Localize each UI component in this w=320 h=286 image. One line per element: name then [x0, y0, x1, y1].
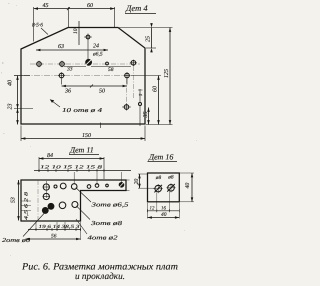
hole r3b slashed: [72, 202, 78, 208]
note leader: [41, 28, 48, 35]
extension top right y27.5: [119, 27, 173, 29]
hole crosshair: [84, 34, 92, 41]
dim56 arrows: [26, 238, 81, 241]
left small extensions: [21, 201, 31, 211]
label 58: [108, 67, 114, 73]
svg-text:и прокладки.: и прокладки.: [75, 272, 125, 282]
svg-text:125: 125: [164, 69, 170, 78]
extension y74 right: [131, 75, 161, 77]
scan speckles: [1, 3, 197, 256]
plate Det11 outline: [21, 180, 126, 221]
dim 60 line: [158, 76, 160, 125]
svg-text:Дет 11: Дет 11: [69, 146, 94, 155]
label 63: [58, 44, 64, 50]
arrow 36 left: [62, 85, 66, 88]
label 60 rotated: [153, 86, 159, 92]
svg-text:Рис. 6. Разметка монтажных пла: Рис. 6. Разметка монтажных плат: [21, 262, 178, 273]
leader 3otv8: [76, 206, 90, 220]
right col holes: vertical centerline: [132, 66, 134, 98]
svg-text:Дет 4: Дет 4: [125, 3, 148, 13]
bottom chain labels: [39, 224, 81, 230]
extension row2 b down: [126, 79, 128, 85]
hole16 b slash: [167, 184, 175, 192]
svg-text:33: 33: [66, 67, 73, 73]
dim40r arrows: [191, 173, 194, 202]
extension y104: [14, 108, 33, 110]
svg-text:45: 45: [43, 3, 49, 9]
dim40b arrows: [148, 216, 180, 219]
label 60: [87, 3, 93, 9]
centerline row1: [30, 63, 140, 65]
dim53 arrows: [17, 180, 20, 221]
label 50: [99, 89, 105, 95]
label 4otv2: [88, 235, 118, 242]
svg-text:63: 63: [58, 44, 64, 50]
label 84: [47, 153, 53, 159]
left arrows: [16, 76, 19, 125]
hole row1 right cross: [130, 60, 137, 66]
centerline row2: [14, 75, 130, 77]
svg-text:40: 40: [8, 80, 14, 86]
chain16 ticks: [148, 209, 180, 212]
svg-text:56: 56: [51, 234, 57, 240]
tab right tick: [127, 180, 130, 191]
dimension 45 top: [34, 8, 69, 10]
svg-text:12: 12: [150, 205, 155, 211]
svg-text:53: 53: [11, 197, 17, 203]
plate Det4 outline: [21, 28, 145, 125]
bottom chain 16 labels: [150, 205, 167, 211]
extension shoulder y48: [146, 47, 156, 49]
extension line left: [33, 7, 35, 42]
dim 40 bottom line: [148, 217, 180, 219]
dim 84 line: [39, 158, 104, 160]
labels d8 d8: [155, 175, 174, 182]
svg-text:35: 35: [143, 112, 149, 119]
dim 35 line: [148, 108, 150, 125]
hole tab a: [95, 184, 99, 188]
label 45: [43, 3, 49, 9]
hole row1 b cross: [59, 61, 66, 67]
svg-text:12 10 15 12 15 8: 12 10 15 12 15 8: [40, 165, 103, 171]
extension line right: [114, 7, 116, 27]
svg-text:40: 40: [185, 183, 191, 189]
extension bottom right y124: [146, 124, 173, 126]
label 10 otv d4: [62, 108, 102, 114]
label 125 rotated: [164, 69, 170, 78]
hole r2 cross: [43, 196, 50, 198]
svg-text:36: 36: [64, 89, 71, 95]
label Det16 underline: [148, 161, 178, 163]
svg-text:24: 24: [93, 44, 99, 50]
hole top (88,37): [86, 35, 90, 39]
dim84 arrows: [39, 157, 104, 160]
leader 10 otv: [50, 100, 60, 108]
ext 40 bottom: [148, 203, 180, 219]
plate Det16 outline: [148, 173, 180, 202]
chain ticks: [39, 169, 104, 172]
label 5 tiny: [138, 93, 143, 96]
dimension 24 line: [89, 49, 108, 51]
hole row1 a cross: [36, 61, 43, 67]
hole row1 a: [37, 62, 42, 67]
hole row1 small: [106, 62, 109, 65]
label 40 rotated: [8, 80, 14, 86]
hole r1a cross: [43, 186, 50, 188]
svg-text:150: 150: [82, 133, 91, 139]
dim line 36-50: [62, 85, 128, 87]
svg-text:2отв ø6: 2отв ø6: [2, 237, 31, 244]
label 36: [64, 89, 71, 95]
hole row1 right: [131, 61, 136, 66]
svg-text:50: 50: [99, 89, 105, 95]
dim 150 extensions: [21, 126, 145, 142]
dim 58 line: [91, 66, 131, 68]
hole row2 b cross: [124, 72, 131, 78]
ext 40 right: [180, 173, 194, 202]
ext bottom chain: [36, 222, 81, 240]
vertical centerline 127: [126, 79, 128, 105]
hole row2 a cross: [58, 72, 65, 78]
leader arrowhead: [50, 100, 54, 103]
leader 4otv2: [76, 219, 87, 234]
rotated chain inside left: [24, 191, 30, 220]
dimension 10 line: [78, 21, 80, 45]
ext 20: [138, 174, 155, 188]
hole dark a: [48, 203, 54, 209]
hole (140,103): [139, 103, 142, 106]
left dim line: [17, 76, 19, 125]
label Det11 underline: [69, 154, 99, 156]
label Det16: [148, 153, 173, 162]
hole tab c dark: [119, 183, 124, 188]
svg-text:60: 60: [87, 3, 93, 9]
label 10 rotated: [73, 28, 79, 34]
dim 40 right line: [191, 173, 193, 202]
label Det4 underline: [125, 13, 156, 15]
svg-text:19 6 14 38,5 3: 19 6 14 38,5 3: [39, 224, 81, 230]
svg-text:10 отв ø 4: 10 отв ø 4: [62, 108, 102, 114]
label Det4: [125, 3, 148, 13]
dimension 63 line: [36, 49, 89, 51]
svg-text:25: 25: [146, 36, 152, 42]
hole r1a: [43, 184, 49, 190]
svg-text:5: 5: [138, 93, 143, 96]
dim 20 line: [139, 174, 141, 188]
hole 6.5 hatched: [86, 59, 92, 65]
extension 140 down: [139, 106, 141, 127]
hole16 a: [155, 185, 162, 192]
hole r1e: [54, 185, 57, 188]
hole16 a slash: [154, 185, 162, 193]
hole tab b: [106, 184, 109, 187]
svg-text:10: 10: [73, 28, 79, 34]
note 8x5=6: [32, 23, 43, 29]
label 3otv8: [90, 220, 122, 227]
label 24: [93, 44, 99, 50]
small dim 5 near hole: [138, 89, 143, 103]
extension line mid: [67, 7, 69, 27]
extension row2 a down: [61, 79, 63, 85]
tick top-mid: [67, 7, 70, 10]
hole r3a: [59, 202, 66, 209]
leader 3otv65: [76, 188, 91, 202]
hole16 b cross: [166, 183, 175, 192]
label 40 right rotated: [185, 183, 191, 189]
bottom chain 16 line: [148, 210, 180, 212]
label 25 rotated: [146, 36, 152, 42]
col line x38: [37, 180, 39, 221]
svg-text:20: 20: [134, 179, 140, 185]
chain labels row: [40, 165, 103, 171]
svg-text:58: 58: [108, 67, 114, 73]
svg-text:ø8: ø8: [167, 175, 174, 181]
label 150: [82, 133, 91, 139]
svg-text:16: 16: [161, 205, 166, 211]
svg-text:Дет 16: Дет 16: [148, 153, 173, 162]
ext hole cols: [157, 192, 170, 212]
hole 6.5 slash: [85, 58, 94, 66]
hole r1d: [87, 185, 91, 189]
svg-text:40: 40: [161, 212, 167, 218]
svg-text:3отв ø8: 3отв ø8: [90, 220, 122, 227]
hole tab c slash: [119, 182, 124, 188]
dim125 arrows: [169, 28, 172, 125]
dimension 60 top: [68, 8, 114, 10]
hole row2 b: [125, 73, 130, 78]
dim60 arrows: [157, 76, 160, 125]
hole (126.5,105): [124, 105, 129, 110]
dim 53 line: [18, 180, 20, 221]
bottom chain ticks: [36, 228, 81, 231]
label 40 bottom: [161, 212, 167, 218]
dim20 arrows: [138, 174, 141, 188]
hole r2: [43, 193, 49, 199]
svg-text:4отв ø2: 4отв ø2: [88, 235, 118, 242]
hole row1 b: [60, 62, 65, 67]
hole dark b: [42, 208, 48, 214]
svg-text:84: 84: [47, 153, 53, 159]
hole16 b: [168, 185, 175, 192]
extension hole to 6.5: [87, 41, 89, 60]
ext to tab holes: [74, 172, 121, 185]
dim 33 arrows: [64, 66, 86, 68]
dim 25 line: [151, 28, 153, 49]
svg-text:60: 60: [153, 86, 159, 92]
label 33: [66, 67, 73, 73]
dim25 arrows: [150, 23, 153, 52]
leader 2otv6: [23, 208, 50, 237]
arrow 24 right: [104, 49, 108, 52]
label 2otv6: [2, 237, 31, 244]
chain line: [34, 170, 131, 172]
label 35 rotated: [143, 112, 149, 119]
hole16 a cross: [154, 184, 164, 193]
hole r1c slashed: [71, 184, 77, 190]
tick 36-50: [90, 85, 93, 88]
label dia 6.5: [92, 52, 103, 58]
ext 84: [39, 157, 104, 179]
label 56: [51, 234, 57, 240]
hole r1b: [60, 183, 66, 189]
label Det11: [69, 146, 94, 155]
arrow 50 right: [123, 85, 127, 88]
label 20 rotated: [134, 179, 140, 185]
arrow 63 left: [36, 49, 40, 52]
dim 125 line: [169, 28, 171, 125]
label 3otv65: [90, 202, 128, 209]
dim150 arrows: [21, 137, 145, 140]
extension y74: [14, 75, 30, 77]
hole row2 a: [59, 73, 64, 78]
arrow top-left: [34, 7, 38, 10]
col line x46: [45, 181, 47, 198]
hole cross: [122, 104, 131, 111]
bottom chain line: [28, 229, 81, 231]
label 23 rotated: [8, 104, 14, 110]
svg-text:23: 23: [8, 104, 14, 110]
dim 56 line: [26, 238, 81, 240]
arrow top-right: [110, 7, 114, 10]
svg-text:3отв ø6,5: 3отв ø6,5: [90, 202, 128, 209]
label 53 rotated: [11, 197, 17, 203]
svg-text:8·5·6: 8·5·6: [32, 23, 43, 29]
dim 150 line: [21, 138, 145, 140]
svg-text:ø8: ø8: [155, 175, 162, 181]
svg-text:ø6,5: ø6,5: [92, 52, 103, 58]
dim35 arrows: [147, 108, 150, 125]
